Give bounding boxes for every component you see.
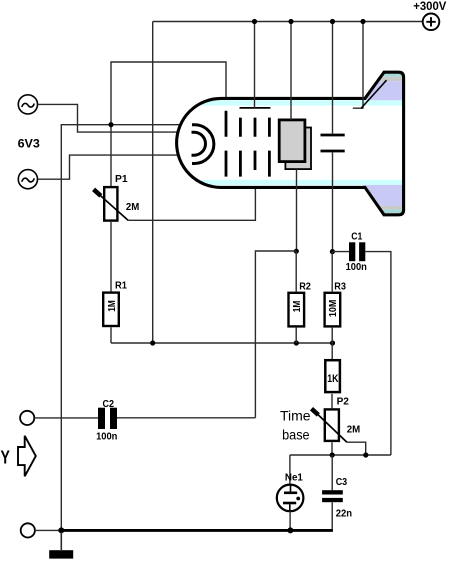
neon lamp Ne1 xyxy=(277,485,304,512)
wire ground rail xyxy=(61,529,333,532)
wire cathode line to left rail down to ground rail xyxy=(61,125,192,531)
wire junction to C2 drop xyxy=(255,251,296,418)
node cathode/P1 junction xyxy=(108,122,113,127)
svg-text:C2: C2 xyxy=(103,399,115,410)
wire 1K bottom lead xyxy=(331,394,333,409)
svg-text:22n: 22n xyxy=(336,509,352,520)
node rail/Y plate feed xyxy=(288,19,293,24)
svg-text:base: base xyxy=(282,426,310,442)
wire P2 bottom lead xyxy=(331,442,333,455)
+300V supply terminal xyxy=(423,13,440,30)
node junction line / R2 xyxy=(294,340,299,345)
wire Y plate bottom to R2 junction xyxy=(296,169,298,251)
svg-text:R1: R1 xyxy=(115,280,127,291)
ground xyxy=(49,532,73,559)
node timebase/wiper xyxy=(363,452,368,457)
svg-text:100n: 100n xyxy=(346,262,367,273)
wire grid loop: P1 top over to grid 1 xyxy=(111,62,226,186)
svg-text:R3: R3 xyxy=(334,282,346,293)
node rail/screen feed xyxy=(360,19,365,24)
wire C3 bottom lead xyxy=(331,502,333,530)
resistor 1K xyxy=(325,360,340,392)
wire 1K top lead xyxy=(331,343,333,359)
wire P2 wiper to timebase line xyxy=(347,442,366,455)
wire heater lower: AC2 to tube xyxy=(38,155,192,179)
CRT focus electrode dashes xyxy=(254,118,257,170)
wire C3 top lead xyxy=(331,455,333,490)
potentiometer P1 xyxy=(94,187,129,221)
potentiometer P2 xyxy=(312,409,347,443)
node ground rail / Ne1 xyxy=(287,527,293,533)
resistor R1 xyxy=(103,293,119,326)
wire R2 top lead xyxy=(295,251,297,292)
svg-text:Ne1: Ne1 xyxy=(285,472,303,483)
node junction line / left vertical xyxy=(150,340,155,345)
svg-text:Y: Y xyxy=(1,448,10,468)
node rail/anode feed xyxy=(252,19,257,24)
wire R3 bottom lead xyxy=(331,328,333,343)
svg-text:1M: 1M xyxy=(292,301,303,313)
input terminal Y xyxy=(20,411,34,425)
Y input arrow xyxy=(18,436,36,477)
wire C2 to junction riser xyxy=(117,417,255,419)
wire P1 wiper to focus electrode xyxy=(128,170,255,220)
wire X plate bottom to R3 junction xyxy=(332,152,334,251)
node rail/X plate feed xyxy=(330,19,335,24)
CRT anode box left dash xyxy=(239,118,242,177)
wire Y input to C2 xyxy=(34,417,98,419)
wire R1 bottom to junction line xyxy=(110,327,112,343)
CRT heater filament arc xyxy=(192,132,206,155)
wire R3 top lead xyxy=(331,252,333,292)
CRT anode box right dash xyxy=(268,118,271,177)
node ground rail left xyxy=(58,527,64,533)
CRT tube envelope fill xyxy=(177,72,404,215)
svg-text:1M: 1M xyxy=(107,300,118,312)
wire X plate feed from rail xyxy=(332,22,334,134)
CRT grid 1 dashes xyxy=(225,111,228,177)
wire anode feed from rail xyxy=(254,22,256,108)
svg-text:R2: R2 xyxy=(299,282,311,293)
wire P1 bottom to R1 xyxy=(110,222,112,292)
CRT anode top bar xyxy=(240,107,271,109)
wire +300V top rail xyxy=(153,21,423,23)
wire heater upper: AC1 to tube xyxy=(38,104,192,132)
CRT screen coating diagonal xyxy=(361,80,387,108)
wire C1 right lead down to timebase node xyxy=(365,252,391,455)
AC source 6V3 lower xyxy=(18,170,37,189)
svg-text:100n: 100n xyxy=(96,432,117,443)
svg-text:+300V: +300V xyxy=(413,0,446,13)
svg-text:2M: 2M xyxy=(347,425,360,436)
node timebase/C3 xyxy=(330,452,335,457)
wire C1 left lead xyxy=(332,251,349,253)
svg-text:10M: 10M xyxy=(328,300,339,318)
wire screen anode feed from rail xyxy=(353,22,364,109)
resistor R3 xyxy=(325,293,341,327)
wire Ne1 bottom lead xyxy=(289,511,291,530)
CRT envelope outline xyxy=(177,72,404,215)
CRT cathode arc xyxy=(192,125,214,164)
svg-text:6V3: 6V3 xyxy=(18,136,41,150)
input terminal ground xyxy=(21,523,35,537)
svg-text:P1: P1 xyxy=(115,174,128,185)
node Y plate / R2 / C2 xyxy=(294,249,299,254)
svg-text:P2: P2 xyxy=(337,397,350,408)
svg-text:C3: C3 xyxy=(336,477,348,488)
capacitor C3 xyxy=(322,490,343,502)
CRT Y deflection plate back xyxy=(279,120,305,162)
CRT X deflection plates xyxy=(321,135,345,151)
wire Y plate top feed from rail xyxy=(290,22,292,120)
wire left vertical from top rail to R1/R2 junction line xyxy=(152,22,154,344)
svg-text:1K: 1K xyxy=(327,373,339,385)
wire R2 bottom lead xyxy=(295,328,297,343)
CRT glass highlight bands xyxy=(180,74,406,213)
svg-text:2M: 2M xyxy=(126,202,139,213)
wire timebase node line xyxy=(290,454,391,456)
node X plate / R3 / C1 xyxy=(330,249,335,254)
resistor R2 xyxy=(289,293,305,327)
capacitor C2 xyxy=(98,408,117,429)
wire terminal to ground node xyxy=(35,529,61,531)
AC source 6V3 upper xyxy=(18,95,37,114)
node junction line / R3-1K xyxy=(330,340,335,345)
wire Ne1 top lead xyxy=(289,455,291,485)
svg-text:Time: Time xyxy=(280,408,311,424)
capacitor C1 xyxy=(349,242,365,261)
svg-text:C1: C1 xyxy=(351,231,362,242)
wire junction line R1-R2-R3 xyxy=(111,342,333,344)
CRT Y deflection plate front xyxy=(285,128,311,170)
